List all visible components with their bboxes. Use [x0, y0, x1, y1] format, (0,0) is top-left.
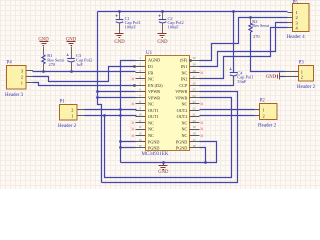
U1 left pin labels	[148, 58, 163, 151]
svg-text:1: 1	[263, 107, 265, 112]
svg-text:NC: NC	[181, 70, 187, 75]
wire C4 top drop from VPWR rail	[233, 12, 235, 73]
svg-text:MC34931EK: MC34931EK	[142, 152, 169, 157]
svg-text:Header 2: Header 2	[58, 124, 77, 129]
svg-text:P3: P3	[299, 61, 305, 66]
svg-text:15: 15	[139, 144, 143, 148]
no-ERC crosses on left NC pins	[132, 78, 135, 138]
wire R2 bottom to P3 pin1	[251, 32, 285, 72]
connector P4 pin stubs	[27, 71, 34, 83]
svg-text:270: 270	[253, 34, 260, 39]
svg-text:NC: NC	[181, 121, 187, 126]
ground above R1	[38, 37, 49, 42]
svg-text:1: 1	[301, 69, 303, 74]
junction OUT1 upper on AGND drop	[119, 108, 122, 111]
svg-text:1: 1	[71, 114, 73, 119]
op IC U1 MC34931EK body	[142, 51, 190, 157]
svg-text:GND: GND	[157, 40, 168, 45]
junction R2 tap on SF net	[249, 16, 252, 19]
svg-text:IN2: IN2	[181, 77, 188, 82]
svg-text:Res Semi: Res Semi	[252, 23, 269, 28]
junction PGND right riser	[204, 161, 207, 164]
svg-text:22: 22	[193, 106, 197, 110]
U1 right pin numbers	[193, 56, 197, 148]
wire GND symbol tap under IC	[163, 163, 165, 166]
wire EN net (P4 pin1 to IC EN)	[33, 83, 136, 86]
svg-text:PGND: PGND	[148, 139, 159, 144]
svg-text:14: 14	[139, 138, 143, 142]
svg-text:26: 26	[193, 81, 197, 85]
svg-text:18: 18	[193, 132, 197, 136]
capacitor C2 Cap Pol2 100nF	[159, 13, 184, 34]
svg-text:GND: GND	[266, 75, 277, 80]
wire PGND left pins to AGND drop	[121, 142, 136, 148]
junction C4 drop on VPWR rail	[232, 10, 235, 13]
connector P3 Header 2 (right middle)	[297, 61, 316, 90]
wire IN1 net (IC to P5 pin3)	[200, 23, 288, 67]
svg-text:Header 3: Header 3	[5, 93, 24, 98]
svg-text:Header 4: Header 4	[287, 35, 306, 40]
wire OUT1 lower (P1 pin1 to IC)	[85, 115, 137, 117]
svg-text:U1: U1	[146, 51, 153, 56]
svg-text:2: 2	[296, 15, 298, 20]
svg-text:Header 2: Header 2	[297, 85, 316, 90]
svg-text:1uF: 1uF	[76, 62, 83, 67]
U1 pin D1 negation bubble	[133, 65, 135, 67]
connector P2 Header 2 (right)	[258, 99, 277, 129]
connector P5 pin stubs	[288, 13, 294, 28]
U1 left pin numbers	[139, 56, 143, 148]
junction OUT1 lower to bottom rail A	[103, 114, 106, 117]
svg-text:AGND: AGND	[148, 58, 160, 63]
wire PGND right lower riser	[200, 148, 206, 163]
svg-text:OUT1: OUT1	[148, 114, 159, 119]
svg-text:P1: P1	[60, 100, 66, 105]
no-ERC crosses on right NC pins	[201, 72, 204, 138]
connector P4 Header 3	[5, 61, 26, 98]
connector P1 Header 2 (left)	[58, 100, 77, 129]
svg-text:(SF): (SF)	[180, 58, 188, 63]
svg-text:2: 2	[301, 75, 303, 80]
ground above C3	[66, 37, 77, 42]
junction C1 tap on VPWR rail	[118, 10, 121, 13]
svg-text:P4: P4	[7, 61, 13, 66]
svg-text:FB: FB	[148, 70, 153, 75]
svg-text:P2: P2	[260, 99, 266, 104]
svg-text:NC: NC	[148, 102, 154, 107]
junction VPWR to U1 pin 6	[96, 90, 99, 93]
svg-text:33nF: 33nF	[237, 79, 247, 84]
svg-text:VPWR: VPWR	[175, 95, 187, 100]
junction R1 on FB net	[42, 70, 45, 73]
wire IN2 net (IC to P5 pin4)	[200, 28, 288, 79]
svg-text:25: 25	[193, 88, 197, 92]
connector P2 pin stubs	[255, 110, 260, 116]
svg-text:270: 270	[49, 62, 56, 67]
svg-text:29: 29	[193, 63, 197, 67]
wire VPWR bottom rail A (jog to right VPWR pin 7)	[105, 98, 232, 178]
resistor R1 Res Semi 270	[42, 47, 65, 72]
GND power port at P3 pin2	[266, 73, 280, 81]
ground symbol below IC	[159, 166, 168, 170]
svg-text:CCP: CCP	[179, 83, 188, 88]
svg-text:10: 10	[139, 113, 143, 117]
U1 left pin stubs rows 1-15	[136, 61, 146, 148]
svg-text:13: 13	[139, 132, 143, 136]
U1 right pin labels	[175, 58, 188, 151]
svg-text:NC: NC	[181, 102, 187, 107]
svg-text:30: 30	[193, 56, 197, 60]
svg-text:D1: D1	[148, 64, 153, 69]
U1 pin EN negation bubble	[133, 84, 135, 86]
svg-text:VPWR: VPWR	[148, 95, 160, 100]
svg-text:100nF: 100nF	[168, 25, 180, 30]
svg-text:20: 20	[193, 119, 197, 123]
svg-text:2: 2	[263, 114, 265, 119]
svg-text:PGND: PGND	[176, 146, 187, 151]
ground below C1	[115, 34, 124, 38]
junction GND symbol tap	[162, 161, 165, 164]
svg-text:NC: NC	[181, 133, 187, 138]
U1 right pin stubs rows 1-15	[190, 61, 200, 148]
wire FB net (P4 pin3 to IC FB, taps R1 C3)	[33, 71, 136, 73]
junction C3 on FB net	[70, 70, 73, 73]
svg-text:GND: GND	[114, 40, 125, 45]
svg-text:17: 17	[193, 138, 197, 142]
svg-text:Header 2: Header 2	[258, 123, 277, 128]
svg-text:27: 27	[193, 75, 197, 79]
svg-text:IN1: IN1	[181, 64, 188, 69]
ground below C2	[158, 34, 167, 38]
svg-text:1: 1	[21, 81, 23, 86]
wire SF net (IC pin to P5 pin2, via R2 tap)	[200, 18, 288, 61]
svg-text:NC: NC	[148, 121, 154, 126]
wire OUT1 upper (P1 pin2 to IC)	[85, 109, 137, 111]
wire VPWR to IC pins 6,7	[98, 92, 136, 98]
svg-text:12: 12	[139, 125, 143, 129]
U1 pin SF negation bubble	[189, 59, 191, 61]
svg-text:1: 1	[296, 10, 298, 15]
svg-text:NC: NC	[148, 77, 154, 82]
wire VPWR left drop / OUT loop B riser	[98, 12, 102, 183]
wire OUT2 lower (IC to P2 pin2)	[200, 115, 255, 117]
svg-text:PGND: PGND	[148, 146, 159, 151]
svg-text:P5: P5	[293, 1, 299, 6]
svg-text:OUT2: OUT2	[177, 108, 188, 113]
svg-text:19: 19	[193, 125, 197, 129]
wire D1 net (P4 pin2 staircase to IC D1)	[33, 67, 136, 82]
junction VPWR to U1 pin 7	[96, 96, 99, 99]
connector P5 Header 4	[287, 1, 310, 40]
svg-text:VPWR: VPWR	[148, 89, 160, 94]
junction PGND lower left	[119, 146, 122, 149]
wire GND rail under IC	[121, 142, 217, 163]
svg-text:NC: NC	[181, 127, 187, 132]
svg-text:PGND: PGND	[176, 139, 187, 144]
capacitor C4 Cap Pol1 33nF	[230, 68, 254, 86]
svg-text:11: 11	[139, 119, 142, 123]
connector P1 pin stubs	[78, 110, 86, 116]
svg-text:16: 16	[193, 144, 197, 148]
capacitor C1 Cap Pol1 100nF	[116, 13, 141, 34]
wire GND port to P3 pin2	[280, 76, 285, 78]
wire AGND net (IC pin1 down to GND rail)	[121, 61, 136, 163]
svg-text:OUT2: OUT2	[177, 114, 188, 119]
svg-text:VPWR: VPWR	[175, 89, 187, 94]
connector P3 pin stubs	[285, 72, 299, 77]
resistor R2 Res Semi 270	[249, 18, 270, 40]
junction OUT1 lower on AGND drop	[119, 114, 122, 117]
svg-text:NC: NC	[148, 127, 154, 132]
svg-text:28: 28	[193, 69, 197, 73]
svg-text:100nF: 100nF	[125, 25, 137, 30]
svg-text:GND: GND	[158, 170, 169, 175]
svg-text:23: 23	[193, 100, 197, 104]
svg-text:2: 2	[71, 107, 73, 112]
svg-text:2: 2	[21, 74, 23, 79]
junction PGND upper left	[119, 140, 122, 143]
capacitor C3 Cap Pol2 1uF	[67, 47, 93, 72]
svg-text:OUT1: OUT1	[148, 108, 159, 113]
svg-text:NC: NC	[148, 133, 154, 138]
wire VPWR bottom rail B (to right VPWR pin 6)	[102, 92, 238, 183]
svg-text:EN (D2): EN (D2)	[148, 83, 163, 88]
junction C2 tap on VPWR rail	[161, 10, 164, 13]
wire VPWR top rail	[98, 11, 288, 13]
svg-text:21: 21	[193, 113, 197, 117]
wire CCP net (IC to C4 bottom)	[200, 76, 234, 86]
svg-text:24: 24	[193, 94, 197, 98]
wire OUT2 upper (IC to P2 pin1)	[200, 109, 255, 111]
